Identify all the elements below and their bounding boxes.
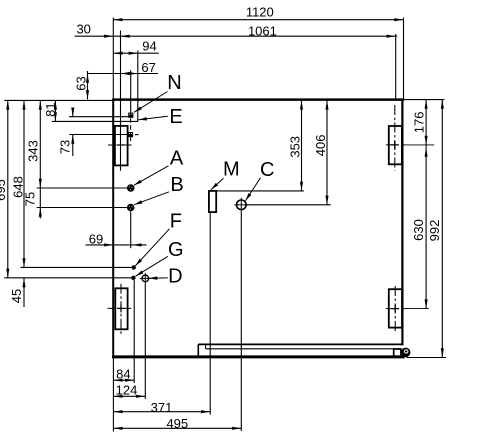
transport rail step: [197, 344, 199, 357]
extension x=395.7: [395, 34, 397, 99]
body outline top edge: [112, 98, 404, 101]
left lower slot: [115, 288, 127, 329]
dim 992: [441, 100, 443, 358]
label E: [139, 116, 168, 120]
connection F dot: [132, 265, 136, 269]
transport rail inner line: [206, 348, 401, 350]
E square centerline dash right: [135, 134, 139, 136]
label F: [135, 229, 169, 266]
B extension line vertical: [130, 211, 132, 248]
dim 84: [113, 379, 134, 381]
connection N square: [128, 113, 133, 118]
right upper slot center mark: [386, 144, 405, 146]
label A: [134, 166, 169, 186]
svg-text:343: 343: [26, 140, 41, 162]
connection G dot: [131, 276, 135, 280]
svg-text:F: F: [170, 211, 182, 233]
body outline left edge: [112, 99, 114, 359]
svg-text:N: N: [167, 72, 181, 94]
right lower slot extension line: [405, 308, 429, 310]
svg-text:45: 45: [9, 289, 24, 303]
right upper slot: [389, 126, 402, 164]
dim 176: [425, 100, 427, 145]
svg-text:124: 124: [116, 382, 138, 397]
dim 45: [23, 278, 25, 307]
dim 63: [87, 71, 89, 99]
M extension line vertical: [209, 212, 211, 415]
top edge extension left: [4, 99, 112, 101]
svg-text:495: 495: [166, 416, 188, 431]
svg-text:1120: 1120: [246, 5, 274, 20]
dim 695: [7, 100, 9, 277]
C extension line vertical: [240, 212, 242, 431]
B extension line horizontal: [37, 207, 127, 209]
A extension line horizontal: [37, 187, 127, 189]
right edge extension above: [403, 18, 405, 100]
transport rail inner step: [205, 344, 207, 348]
dim 343: [39, 100, 41, 188]
svg-text:353: 353: [288, 136, 303, 158]
dim 75: [39, 188, 41, 208]
svg-text:1061: 1061: [248, 23, 277, 38]
D extension line vertical: [144, 284, 146, 399]
svg-text:648: 648: [10, 176, 25, 198]
svg-text:D: D: [168, 266, 182, 288]
dim 30 and dim 1061: [75, 35, 398, 37]
extension line above N: [130, 70, 132, 113]
F extension line horizontal: [21, 266, 134, 268]
connection E square: [128, 132, 133, 137]
svg-text:73: 73: [57, 140, 72, 154]
label D: [149, 277, 168, 279]
transport rail top line: [198, 343, 402, 345]
dim 406: [326, 100, 328, 204]
svg-text:406: 406: [313, 135, 328, 157]
svg-text:67: 67: [141, 60, 155, 75]
svg-text:695: 695: [0, 179, 8, 201]
extension x=137.8: [137, 51, 139, 122]
left upper slot center mark: [108, 144, 132, 146]
M top extension line: [216, 190, 304, 192]
connection M rectangle: [209, 191, 216, 212]
svg-text:992: 992: [427, 220, 442, 242]
body outline right edge: [401, 99, 403, 346]
dim 73: [72, 109, 74, 117]
N extension line horizontal: [69, 116, 128, 118]
label M: [211, 178, 224, 190]
left lower slot center mark: [108, 307, 133, 309]
right upper slot extension line: [405, 144, 434, 146]
label C: [245, 178, 260, 201]
G extension line horizontal: [4, 277, 133, 279]
connection C circle: [237, 200, 247, 210]
dim 67: [88, 73, 159, 75]
label B: [134, 192, 169, 205]
N-E centerline dashes: [130, 118, 132, 132]
dim 94: [113, 52, 159, 54]
dim 495: [113, 427, 241, 429]
connection D circle: [142, 275, 149, 282]
right lower slot center mark: [386, 308, 405, 310]
svg-text:94: 94: [142, 39, 156, 54]
left upper slot: [115, 126, 128, 165]
svg-text:A: A: [170, 148, 184, 170]
svg-text:C: C: [260, 159, 274, 181]
dim 353: [301, 100, 303, 190]
slot center extension x=120.5: [120, 31, 122, 171]
label N: [134, 92, 168, 113]
G extension line vertical: [133, 280, 135, 383]
svg-text:81: 81: [43, 102, 58, 116]
svg-text:63: 63: [74, 76, 89, 90]
roller wheel: [401, 348, 411, 358]
svg-text:630: 630: [411, 219, 426, 241]
svg-text:371: 371: [151, 400, 173, 415]
svg-text:M: M: [223, 159, 240, 181]
body outline bottom edge: [112, 355, 404, 358]
svg-text:B: B: [170, 174, 183, 196]
dim 648: [23, 100, 25, 267]
transport rail end block: [394, 349, 401, 356]
svg-text:30: 30: [76, 22, 90, 37]
dim 1120: [113, 19, 403, 21]
svg-text:G: G: [168, 239, 184, 261]
E lower extension line horizontal: [69, 134, 128, 136]
E extension line horizontal: [52, 120, 138, 122]
svg-text:69: 69: [89, 231, 103, 246]
left edge extension above: [112, 18, 114, 99]
dim 630: [425, 145, 427, 309]
svg-text:176: 176: [412, 112, 427, 134]
right lower slot: [389, 289, 402, 327]
dim 69: [86, 244, 147, 246]
connection B circle: [127, 204, 135, 212]
floor line: [407, 357, 447, 359]
svg-text:E: E: [169, 106, 182, 128]
C extension line horizontal: [246, 204, 331, 206]
dim 124: [113, 395, 145, 397]
dim 81: [54, 100, 56, 121]
connection A circle: [127, 184, 135, 192]
svg-text:84: 84: [116, 367, 130, 382]
top edge extension right: [404, 99, 444, 101]
dim 371: [113, 411, 210, 413]
left edge extension below: [112, 358, 114, 431]
label G: [136, 256, 168, 276]
